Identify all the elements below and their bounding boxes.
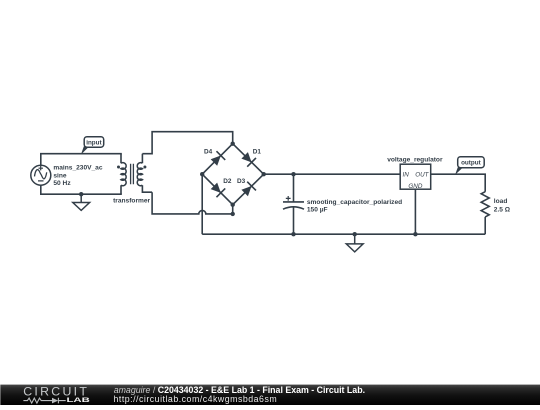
svg-text:http://circuitlab.com/c4kwgmsb: http://circuitlab.com/c4kwgmsbda6sm <box>114 394 278 404</box>
svg-text:OUT: OUT <box>415 172 429 179</box>
svg-text:load: load <box>494 198 508 205</box>
node bridge right <box>262 172 266 176</box>
svg-text:voltage_regulator: voltage_regulator <box>387 157 443 164</box>
logo resistor diode line <box>23 398 65 404</box>
svg-text:mains_230V_ac: mains_230V_ac <box>53 165 102 172</box>
wire regulator GND to rail <box>414 189 416 234</box>
svg-text:IN: IN <box>403 172 410 179</box>
wire bridge left node to ground rail <box>201 174 203 234</box>
svg-text:sine: sine <box>53 172 67 179</box>
svg-text:150 µF: 150 µF <box>307 207 328 214</box>
logo diode triangle <box>52 398 58 404</box>
svg-text:input: input <box>86 139 102 146</box>
ground symbol left <box>73 194 90 210</box>
label smooting_capacitor_polarized 150 uF <box>307 199 402 214</box>
footer bar <box>0 385 540 406</box>
junction capacitor bottom <box>291 232 295 236</box>
diode D3 <box>233 174 264 205</box>
capacitor smooting_capacitor_polarized <box>283 174 304 234</box>
voltage regulator U1 <box>400 164 431 190</box>
flag input <box>81 137 104 155</box>
svg-text:50 Hz: 50 Hz <box>53 180 71 187</box>
ground symbol right <box>346 234 363 252</box>
wire secondary bottom to bridge bottom with hop <box>152 192 233 214</box>
svg-text:smooting_capacitor_polarized: smooting_capacitor_polarized <box>307 199 402 206</box>
junction regulator gnd <box>413 232 417 236</box>
svg-text:D1: D1 <box>253 149 262 156</box>
flag output <box>455 157 484 175</box>
wire secondary top to bridge top <box>142 132 232 154</box>
node bridge bottom <box>231 203 235 207</box>
wire load bottom <box>484 217 486 234</box>
svg-text:2.5 Ω: 2.5 Ω <box>494 207 511 214</box>
svg-text:LAB: LAB <box>67 396 91 403</box>
wire positive rail bridge to regulator <box>264 173 401 175</box>
svg-text:output: output <box>461 160 481 167</box>
wire bridge bottom node stub <box>232 205 234 214</box>
ac source mains_230V_ac <box>31 165 51 185</box>
label load 2.5 ohm <box>494 198 511 213</box>
wire bottom from source to transformer primary <box>41 186 121 195</box>
svg-text:D4: D4 <box>204 149 213 156</box>
node bridge left <box>200 172 204 176</box>
junction ground right <box>353 232 357 236</box>
svg-text:GND: GND <box>408 183 422 190</box>
transformer phase dot primary <box>117 166 120 169</box>
diode D2 <box>202 174 233 205</box>
diode D4 <box>202 144 233 175</box>
label mains_230V_ac sine 50 Hz <box>53 165 102 187</box>
svg-text:D3: D3 <box>237 178 246 185</box>
wire bottom ground rail <box>202 233 485 235</box>
svg-text:D2: D2 <box>223 178 232 185</box>
wire top from source to transformer primary <box>41 154 121 165</box>
diode D1 <box>233 144 264 175</box>
resistor load <box>481 192 489 217</box>
junction ground node <box>79 192 83 196</box>
node bridge top <box>231 142 235 146</box>
transformer phase dot secondary <box>143 166 146 169</box>
svg-text:transformer: transformer <box>113 198 150 205</box>
junction bridge bottom <box>231 212 235 216</box>
wire regulator OUT to load <box>431 174 486 192</box>
junction capacitor top <box>291 172 295 176</box>
transformer <box>121 154 152 195</box>
